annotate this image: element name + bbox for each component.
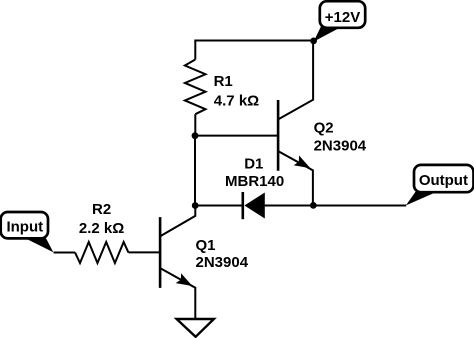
- svg-text:+12V: +12V: [325, 9, 360, 26]
- svg-text:4.7 kΩ: 4.7 kΩ: [214, 92, 259, 109]
- svg-text:MBR140: MBR140: [225, 173, 284, 190]
- svg-text:R2: R2: [92, 201, 111, 218]
- svg-text:R1: R1: [214, 73, 233, 90]
- svg-text:2N3904: 2N3904: [196, 254, 249, 271]
- svg-text:Q1: Q1: [196, 237, 216, 254]
- svg-text:Input: Input: [6, 219, 43, 236]
- svg-text:2N3904: 2N3904: [314, 137, 367, 154]
- svg-text:2.2 kΩ: 2.2 kΩ: [79, 220, 124, 237]
- svg-text:Output: Output: [419, 172, 468, 189]
- svg-text:D1: D1: [244, 156, 263, 173]
- svg-text:Q2: Q2: [314, 119, 334, 136]
